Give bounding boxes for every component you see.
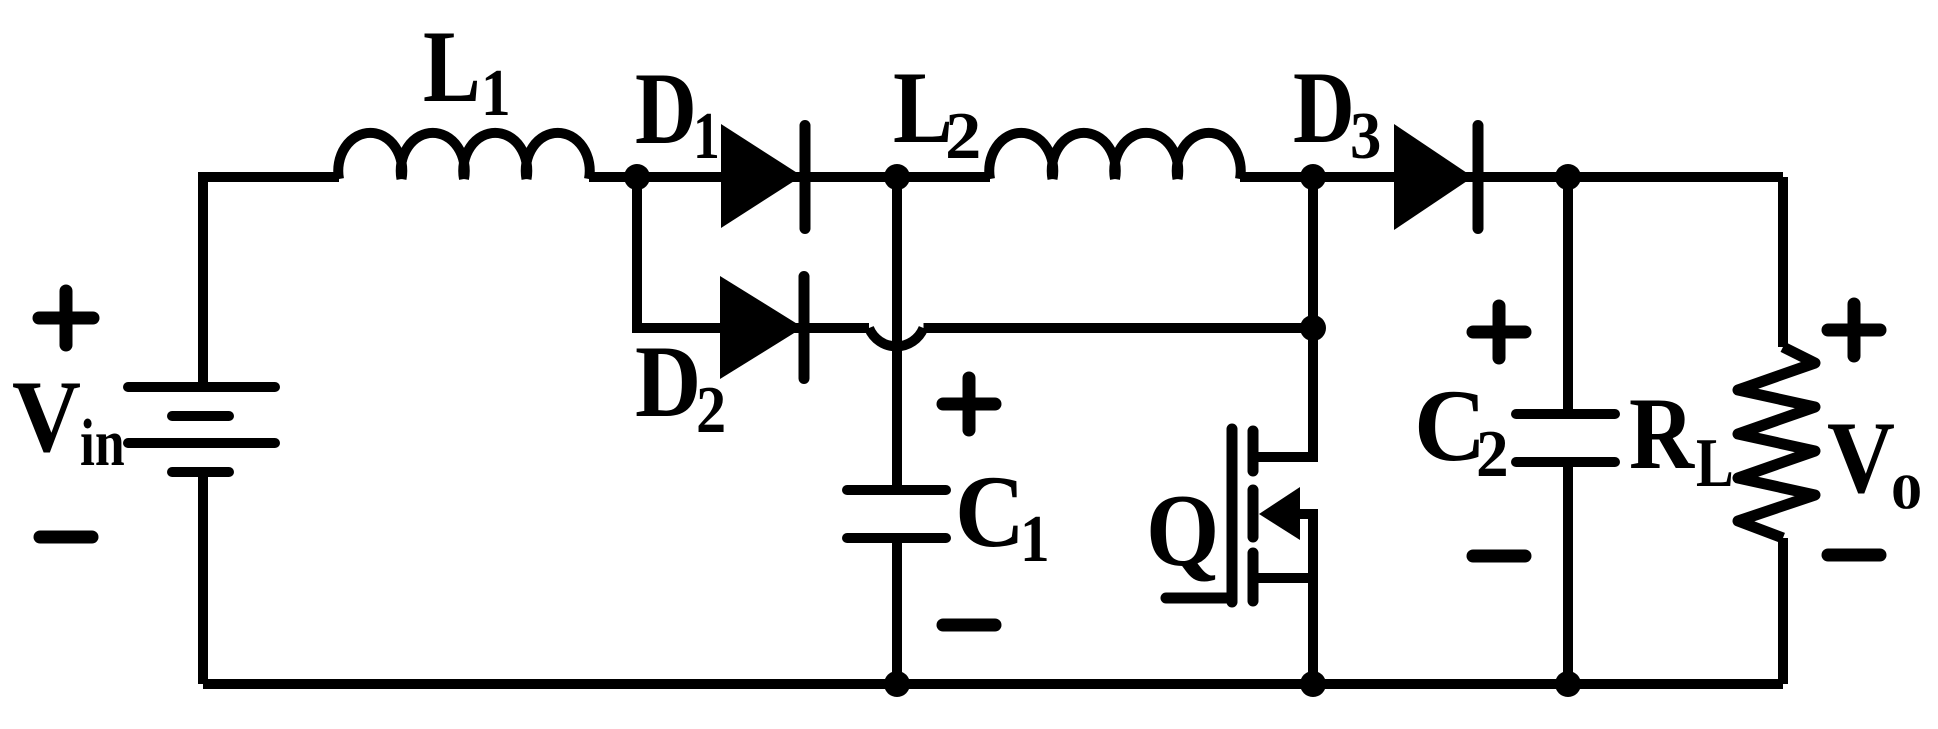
- svg-text:0: 0: [1891, 465, 1922, 520]
- svg-text:D: D: [1293, 52, 1355, 165]
- svg-text:L: L: [893, 50, 953, 164]
- svg-text:L: L: [1696, 423, 1734, 501]
- svg-text:D: D: [635, 53, 697, 166]
- svg-text:1: 1: [693, 99, 720, 173]
- svg-text:L: L: [423, 9, 481, 124]
- svg-text:1: 1: [1020, 502, 1050, 576]
- svg-text:in: in: [80, 406, 125, 480]
- svg-text:V: V: [12, 360, 81, 474]
- svg-text:V: V: [1827, 401, 1895, 515]
- svg-text:D: D: [635, 325, 701, 439]
- svg-text:2: 2: [1476, 417, 1509, 491]
- svg-text:2: 2: [696, 372, 726, 447]
- svg-text:C: C: [955, 454, 1025, 568]
- svg-text:2: 2: [945, 100, 981, 174]
- svg-text:1: 1: [481, 56, 511, 130]
- svg-text:R: R: [1629, 376, 1695, 490]
- svg-text:Q: Q: [1146, 474, 1219, 588]
- svg-text:3: 3: [1350, 99, 1381, 173]
